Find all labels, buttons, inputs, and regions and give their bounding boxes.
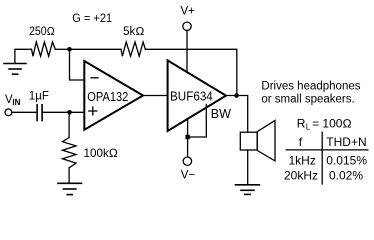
svg-text:250Ω: 250Ω <box>29 26 55 38</box>
terminal VIN <box>5 109 12 116</box>
wire U2 output to speaker <box>226 96 248 133</box>
svg-text:R: R <box>297 116 306 130</box>
table header rule <box>286 149 368 151</box>
wire ground to R1 <box>15 49 32 63</box>
svg-text:f: f <box>299 135 303 149</box>
svg-text:IN: IN <box>12 98 20 107</box>
svg-text:5kΩ: 5kΩ <box>123 26 145 38</box>
node A junction dot <box>67 47 72 52</box>
wire R1 to node A <box>55 48 69 50</box>
svg-text:or small speakers.: or small speakers. <box>261 94 354 106</box>
ground G2 (below 100k) <box>58 183 82 194</box>
wire V+ to U2 top edge <box>186 31 188 73</box>
speaker LS1 <box>240 132 257 150</box>
svg-text:OPA132: OPA132 <box>87 90 128 104</box>
svg-text:L: L <box>306 123 311 132</box>
svg-text:0.015%: 0.015% <box>326 153 367 167</box>
svg-text:V+: V+ <box>181 6 196 18</box>
svg-text:V−: V− <box>181 169 196 181</box>
terminal V+ <box>183 22 191 30</box>
svg-text:20kHz: 20kHz <box>284 168 318 182</box>
svg-text:1kHz: 1kHz <box>289 153 316 167</box>
resistor R2 5k <box>121 42 145 56</box>
V- pin wire <box>187 119 189 157</box>
resistor R1 250ohm <box>32 42 56 56</box>
wire node A to R2 <box>70 48 122 50</box>
op-amp U1 OPA132 <box>84 61 143 130</box>
ground G3 (below speaker) <box>236 185 260 195</box>
wire C1 to op-amp + input <box>43 111 85 113</box>
wire U1 output to U2 input <box>143 95 168 97</box>
table column divider <box>321 132 323 184</box>
svg-text:BW: BW <box>211 107 231 121</box>
square junction on V- wire <box>185 135 189 139</box>
svg-text:100kΩ: 100kΩ <box>84 146 118 160</box>
wire VIN to C1 <box>12 111 37 113</box>
svg-text:= 100Ω: = 100Ω <box>312 116 352 130</box>
svg-text:1µF: 1µF <box>29 91 49 103</box>
ground G1 (left of 250 ohm resistor) <box>4 64 26 75</box>
capacitor C1 1uF <box>37 105 42 121</box>
buffer U2 BUF634 <box>168 60 226 131</box>
plus sign (non-inverting input) <box>89 110 97 112</box>
terminal V- <box>183 157 191 165</box>
svg-text:THD+N: THD+N <box>326 135 366 149</box>
wire speaker to ground <box>247 150 249 185</box>
BW pin wire <box>188 105 207 138</box>
minus sign (inverting input) <box>91 77 98 79</box>
svg-text:0.02%: 0.02% <box>329 168 363 182</box>
svg-text:BUF634: BUF634 <box>170 89 213 103</box>
svg-text:G = +21: G = +21 <box>72 13 112 25</box>
output node junction dot <box>234 93 239 98</box>
feedback wire (R2 to output node) <box>145 49 236 95</box>
wire + node down to R3 <box>68 112 70 137</box>
wire R3 to ground <box>68 168 70 183</box>
resistor R3 100k (vertical) <box>63 138 77 168</box>
wire node A down to op-amp inverting input <box>70 49 85 80</box>
svg-text:Drives headphones: Drives headphones <box>261 81 360 93</box>
junction dot at + input node <box>67 110 72 115</box>
